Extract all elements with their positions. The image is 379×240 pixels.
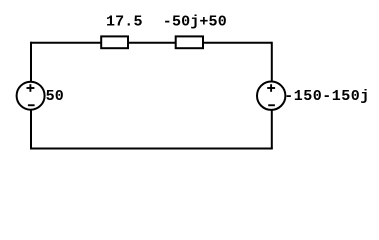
voltage source V2 <box>257 82 285 110</box>
minus mark of V1 <box>28 104 35 106</box>
minus mark of V2 <box>268 104 275 106</box>
wire left <box>30 42 32 149</box>
wire bottom <box>30 148 273 150</box>
wire top <box>31 42 272 44</box>
voltage source V1 <box>17 82 45 110</box>
plus mark of V1 <box>27 84 35 92</box>
svg-text:-150-150j: -150-150j <box>284 88 370 105</box>
wire right <box>271 42 273 149</box>
resistor R2 <box>176 36 203 48</box>
resistor R1 <box>101 36 128 48</box>
svg-text:50: 50 <box>46 88 64 105</box>
svg-text:-50j+50: -50j+50 <box>163 13 227 30</box>
svg-text:17.5: 17.5 <box>106 13 143 30</box>
plus mark of V2 <box>267 84 275 92</box>
